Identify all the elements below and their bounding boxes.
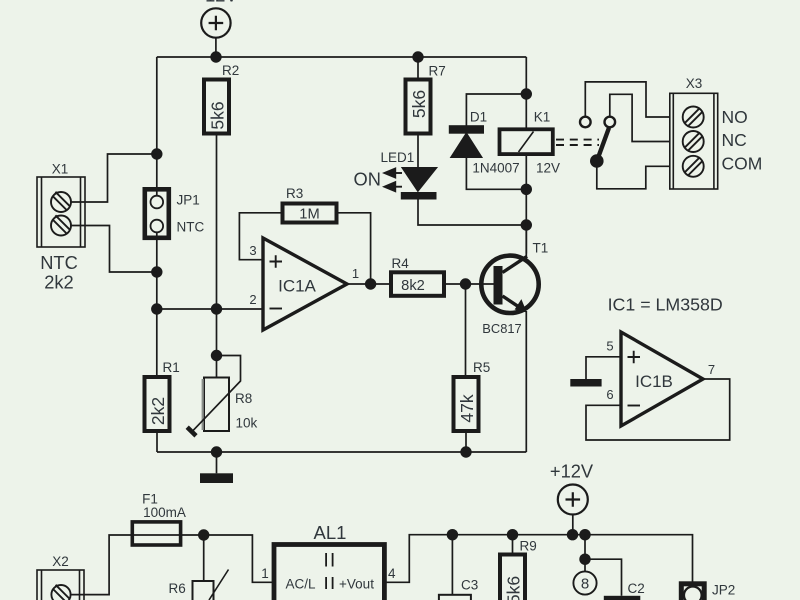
resistor R5 bbox=[454, 377, 479, 431]
power module AL1 body bbox=[274, 545, 384, 600]
wire node to R6 bbox=[203, 535, 205, 581]
jumper JP2 body bbox=[681, 584, 704, 600]
svg-text:47k: 47k bbox=[457, 394, 477, 422]
wire X1 pin1 to rail bbox=[71, 154, 157, 202]
wire C3 down bbox=[451, 535, 453, 595]
capacitor C2 plate bbox=[604, 596, 641, 600]
node top rail / R7 bbox=[412, 51, 423, 62]
connector X3 screw COM bbox=[683, 156, 704, 177]
svg-text:5: 5 bbox=[606, 339, 613, 354]
wire X2 to fuse bbox=[71, 535, 133, 595]
pin 8 circle bbox=[573, 571, 596, 594]
svg-text:1: 1 bbox=[352, 266, 359, 281]
wire pin8 branch down bbox=[584, 535, 586, 572]
transistor T1 circle bbox=[481, 256, 538, 313]
jumper JP1 pin 2 bbox=[151, 220, 164, 233]
wire AL1 output to +12V rail bbox=[385, 535, 693, 583]
relay mechanical coupling dashes bbox=[556, 140, 599, 145]
connector X2 screw 1 bbox=[51, 585, 70, 600]
svg-text:R9: R9 bbox=[520, 539, 537, 554]
wire top +12V rail bbox=[157, 56, 527, 58]
relay contact NO terminal bbox=[580, 117, 591, 128]
wire LED1 to collector node bbox=[418, 200, 526, 226]
node R6 tap bbox=[198, 529, 209, 540]
wire R5 bottom to ground rail bbox=[465, 431, 467, 452]
wire NC contact to X3 bbox=[610, 94, 670, 141]
wire pin 6 feedback loop bbox=[586, 379, 730, 440]
svg-text:NTC: NTC bbox=[177, 220, 205, 235]
wire top rail to R7 bbox=[417, 57, 419, 80]
node ground/R5 bbox=[460, 446, 471, 457]
svg-text:1: 1 bbox=[261, 566, 269, 581]
svg-text:NO: NO bbox=[722, 107, 748, 127]
connector X3 body bbox=[670, 93, 718, 189]
svg-text:2: 2 bbox=[249, 292, 256, 307]
svg-text:10k: 10k bbox=[236, 416, 258, 431]
node base/R5 bbox=[460, 278, 471, 289]
wire R7 to LED1 bbox=[417, 134, 419, 169]
svg-text:1N4007: 1N4007 bbox=[472, 161, 519, 176]
svg-text:5k6: 5k6 bbox=[208, 101, 228, 129]
svg-text:JP2: JP2 bbox=[712, 583, 735, 598]
varistor R6 diagonal bbox=[209, 570, 229, 600]
node D1 top bbox=[521, 88, 532, 99]
supply symbol +12V top bbox=[201, 8, 230, 37]
relay contact lever bbox=[597, 128, 609, 160]
AL1 inner marks bbox=[326, 553, 333, 567]
LED arrow 1 bbox=[382, 167, 402, 179]
svg-text:+12V: +12V bbox=[550, 460, 594, 481]
op-amp IC1B minus sign bbox=[628, 405, 641, 407]
wire node to R5 bbox=[465, 284, 467, 377]
AL1 inner bars 2 bbox=[326, 577, 333, 589]
connector X1 screw 1 bbox=[51, 192, 71, 212]
svg-text:+Vout: +Vout bbox=[339, 577, 374, 592]
wire +12V stem bottom bbox=[572, 515, 574, 535]
svg-text:5k6: 5k6 bbox=[504, 576, 524, 600]
op-amp IC1A minus sign bbox=[270, 308, 283, 310]
svg-text:NC: NC bbox=[722, 130, 747, 150]
supply symbol +12V bottom bbox=[558, 485, 588, 515]
wire left rail lower (JP1 to R1) bbox=[156, 232, 158, 377]
transistor T1 emitter stroke bbox=[503, 296, 522, 309]
svg-text:7: 7 bbox=[708, 362, 715, 377]
wire D1 anode branch bbox=[466, 157, 526, 189]
wire NO contact to X3 bbox=[585, 82, 670, 117]
svg-text:8: 8 bbox=[581, 575, 589, 592]
wire D1 cathode branch bbox=[466, 94, 526, 126]
node X1 pin1 junction bbox=[151, 148, 162, 159]
wire emitter down to ground rail bbox=[525, 311, 527, 452]
svg-text:+12V: +12V bbox=[194, 0, 238, 6]
svg-text:R1: R1 bbox=[163, 360, 180, 375]
node R2/R8 divider bbox=[211, 303, 222, 314]
svg-text:T1: T1 bbox=[533, 241, 549, 256]
wire R1 bottom to ground rail bbox=[156, 431, 158, 452]
jumper JP1 body bbox=[145, 189, 169, 238]
wire R3 right to output bbox=[337, 213, 371, 284]
resistor R7 bbox=[406, 80, 431, 134]
wire relay bottom to collector bbox=[525, 154, 527, 253]
svg-text:IC1A: IC1A bbox=[278, 277, 316, 296]
resistor R3 bbox=[283, 204, 337, 223]
jumper JP2 pin bbox=[684, 587, 702, 600]
wire R2 bottom to node bbox=[216, 134, 218, 310]
svg-text:R7: R7 bbox=[429, 64, 446, 79]
svg-text:R4: R4 bbox=[392, 256, 410, 271]
connector X3 screw NO bbox=[683, 107, 704, 128]
wire divider down to R8 bbox=[216, 309, 218, 378]
relay K1 coil bbox=[500, 129, 553, 154]
wire left rail upper (to JP1) bbox=[156, 57, 158, 196]
svg-text:X3: X3 bbox=[686, 76, 703, 91]
diode D1 triangle bbox=[451, 133, 482, 157]
node R9 bbox=[507, 529, 518, 540]
resistor R2 bbox=[204, 80, 229, 134]
capacitor C3 plate bbox=[439, 595, 471, 600]
wire pin3 to R3 (feedback left) bbox=[239, 213, 282, 260]
svg-text:AL1: AL1 bbox=[314, 522, 347, 543]
wire fuse to AL1 bbox=[181, 535, 274, 582]
svg-text:2k2: 2k2 bbox=[44, 272, 73, 293]
node +12V stem bbox=[567, 529, 578, 540]
connector X3 screw NC bbox=[683, 131, 704, 152]
wire to C2 bbox=[585, 559, 622, 596]
wire COM to X3 bbox=[597, 166, 670, 189]
svg-text:C3: C3 bbox=[461, 578, 478, 593]
wire ground rail bbox=[157, 451, 526, 453]
svg-text:LED1: LED1 bbox=[381, 150, 415, 165]
svg-text:100mA: 100mA bbox=[143, 505, 186, 520]
transistor T1 collector stroke bbox=[503, 256, 528, 272]
svg-text:1M: 1M bbox=[299, 206, 319, 222]
pin 5 termination bar bbox=[570, 379, 601, 387]
node pin8/C2 bbox=[579, 554, 590, 565]
relay contact NC terminal bbox=[605, 117, 616, 128]
svg-text:IC1B: IC1B bbox=[635, 372, 673, 391]
LED LED1 cathode bar bbox=[401, 192, 437, 200]
wire X1 pin2 to rail bbox=[71, 226, 157, 273]
connector X2 body bbox=[37, 570, 84, 600]
svg-text:12V: 12V bbox=[536, 161, 560, 176]
wire R4 to T1 base bbox=[444, 283, 494, 285]
svg-text:JP1: JP1 bbox=[177, 193, 200, 208]
node X1 pin2 junction bbox=[151, 266, 162, 277]
resistor R1 bbox=[145, 377, 170, 431]
svg-text:X1: X1 bbox=[52, 162, 69, 177]
svg-text:R3: R3 bbox=[286, 186, 303, 201]
wire op-amp output bbox=[347, 283, 391, 285]
wire collector up bbox=[525, 225, 527, 257]
svg-text:D1: D1 bbox=[470, 110, 487, 125]
svg-text:C2: C2 bbox=[628, 581, 645, 596]
svg-text:X2: X2 bbox=[52, 554, 69, 569]
wire inverting input bbox=[157, 308, 263, 310]
svg-text:6: 6 bbox=[606, 387, 613, 402]
resistor R4 bbox=[391, 272, 444, 296]
node D1 bottom / relay bottom bbox=[521, 184, 532, 195]
node pin8 branch bbox=[579, 529, 590, 540]
diode D1 cathode bar bbox=[449, 125, 484, 134]
node R8 wiper junction bbox=[211, 350, 222, 361]
potentiometer R8 wiper arm bbox=[192, 356, 240, 432]
transistor T1 base bar bbox=[494, 266, 503, 305]
svg-text:IC1 = LM358D: IC1 = LM358D bbox=[608, 294, 723, 314]
svg-text:K1: K1 bbox=[534, 110, 551, 125]
svg-text:5k6: 5k6 bbox=[409, 90, 429, 118]
wire supply stem to top rail bbox=[215, 38, 217, 57]
node output/R3 bbox=[365, 278, 376, 289]
svg-text:COM: COM bbox=[722, 153, 763, 173]
svg-text:8k2: 8k2 bbox=[401, 278, 425, 294]
svg-text:R2: R2 bbox=[222, 63, 239, 78]
node C3 bbox=[447, 529, 458, 540]
fuse F1 bbox=[132, 522, 180, 545]
jumper JP1 pin 1 bbox=[151, 196, 164, 209]
svg-text:3: 3 bbox=[249, 243, 256, 258]
node ground/R8 bbox=[211, 446, 222, 457]
svg-text:4: 4 bbox=[388, 566, 396, 581]
node LED / collector bbox=[521, 219, 532, 230]
svg-text:R8: R8 bbox=[235, 391, 252, 406]
ground symbol bbox=[200, 452, 233, 483]
connector X1 screw 2 bbox=[51, 215, 71, 235]
svg-text:NTC: NTC bbox=[40, 252, 78, 273]
LED arrow 2 bbox=[382, 181, 402, 193]
wire R9 down bbox=[512, 535, 514, 555]
node top rail / +12V bbox=[210, 51, 221, 62]
wire top rail corner down to relay bbox=[525, 57, 527, 129]
varistor R6 body bbox=[193, 581, 214, 600]
LED LED1 triangle bbox=[403, 168, 436, 191]
svg-text:R6: R6 bbox=[169, 581, 186, 596]
svg-text:AC/L: AC/L bbox=[285, 577, 316, 592]
node inverting input junction bbox=[151, 303, 162, 314]
op-amp IC1A plus sign bbox=[270, 255, 283, 268]
wire pin 5 stub bbox=[586, 357, 621, 379]
svg-text:2k2: 2k2 bbox=[148, 397, 168, 425]
connector X1 body bbox=[37, 177, 85, 247]
potentiometer R8 wiper blade bbox=[187, 427, 196, 436]
transistor T1 emitter arrow bbox=[515, 299, 527, 312]
relay contact COM pivot bbox=[590, 154, 604, 168]
op-amp IC1B plus sign bbox=[628, 351, 641, 364]
svg-text:R5: R5 bbox=[473, 360, 490, 375]
op-amp IC1B bbox=[621, 332, 703, 426]
potentiometer R8 body bbox=[203, 378, 229, 432]
svg-text:ON: ON bbox=[354, 168, 381, 189]
op-amp IC1A bbox=[263, 238, 347, 330]
svg-text:BC817: BC817 bbox=[482, 321, 521, 336]
resistor R9 bbox=[500, 555, 525, 600]
